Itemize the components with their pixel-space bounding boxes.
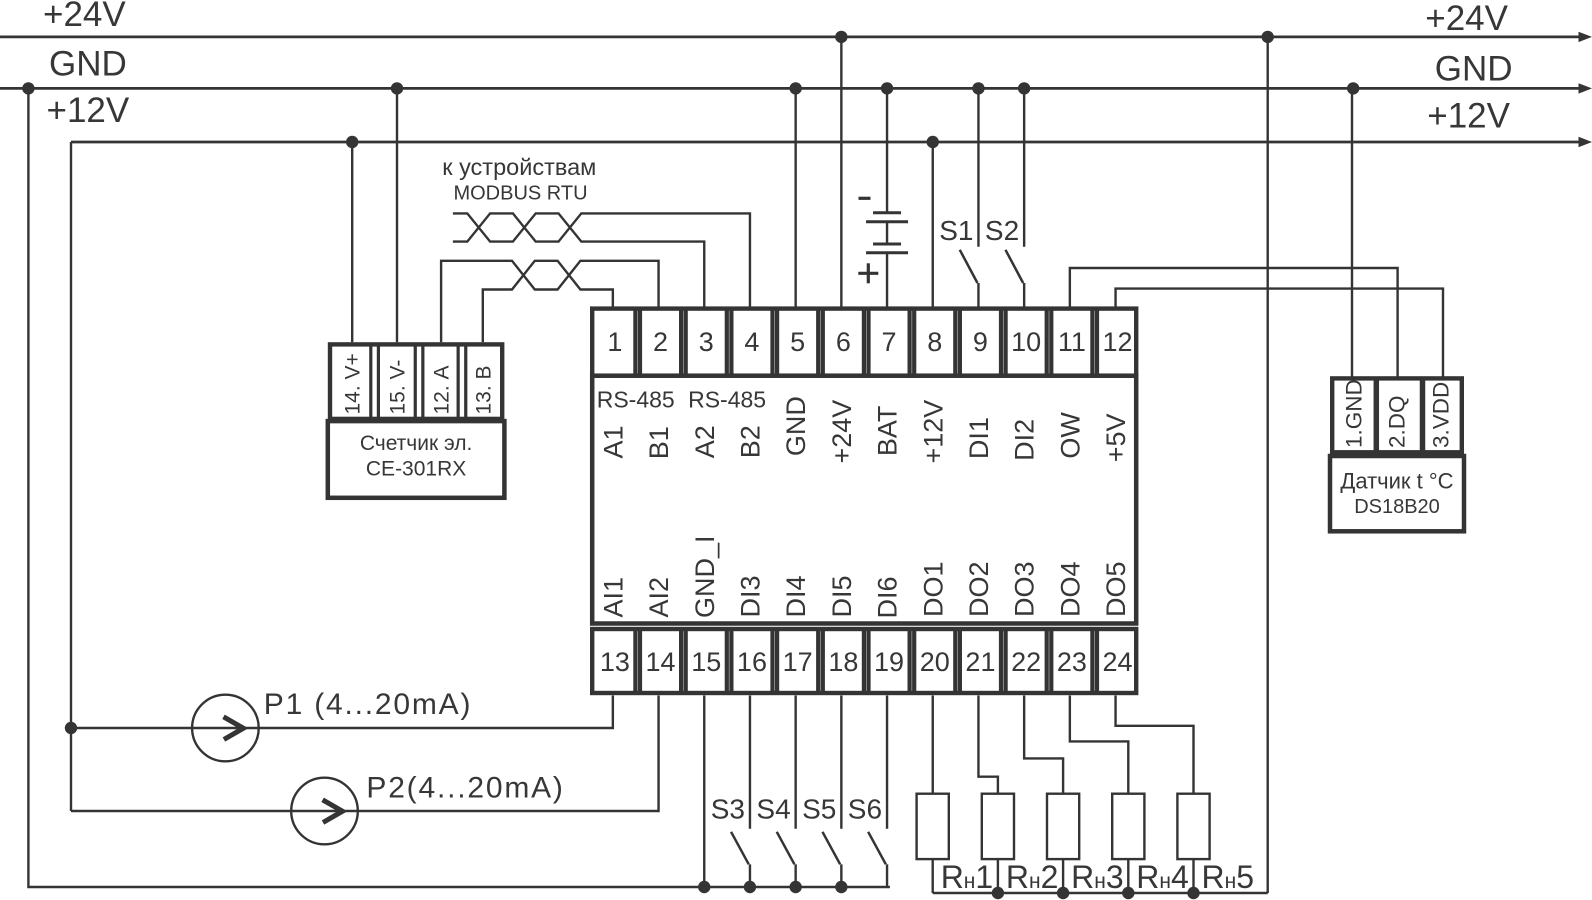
svg-text:B1: B1 [644,426,674,459]
svg-text:13. В: 13. В [472,365,495,414]
svg-text:12: 12 [1103,327,1133,357]
svg-text:RS-485: RS-485 [688,387,766,413]
svg-text:S5: S5 [802,793,836,824]
svg-text:GND: GND [49,45,127,84]
svg-text:3: 3 [699,327,714,357]
svg-text:OW: OW [1055,412,1085,459]
svg-text:RS-485: RS-485 [597,387,675,413]
svg-text:20: 20 [920,647,950,677]
svg-text:+12V: +12V [1427,97,1510,136]
svg-text:12. А: 12. А [431,365,454,414]
svg-text:S2: S2 [985,215,1019,246]
svg-text:+5V: +5V [1101,414,1131,463]
svg-text:5: 5 [790,327,805,357]
svg-text:15. V-: 15. V- [387,360,410,415]
svg-text:A2: A2 [690,425,720,458]
svg-text:21: 21 [965,647,995,677]
svg-text:16: 16 [737,647,767,677]
svg-text:СЕ-301RX: СЕ-301RX [366,458,466,481]
svg-text:DI2: DI2 [1010,419,1040,461]
svg-text:A1: A1 [598,425,628,458]
svg-text:DO2: DO2 [964,561,994,617]
svg-text:BAT: BAT [873,406,903,457]
svg-text:1: 1 [607,327,622,357]
svg-text:Счетчик эл.: Счетчик эл. [360,432,473,455]
svg-text:P1 (4...20mA): P1 (4...20mA) [264,688,472,721]
svg-text:P2(4...20mA): P2(4...20mA) [366,772,564,805]
svg-text:2: 2 [653,327,668,357]
svg-text:14: 14 [646,647,676,677]
svg-text:DI5: DI5 [827,575,857,617]
svg-text:15: 15 [691,647,721,677]
svg-text:DS18B20: DS18B20 [1354,496,1440,518]
svg-text:GND: GND [781,396,811,456]
svg-text:DO5: DO5 [1101,561,1131,617]
svg-text:1.GND: 1.GND [1341,379,1366,448]
svg-text:+12V: +12V [918,400,948,464]
svg-text:GND_I: GND_I [690,535,720,618]
svg-text:10: 10 [1011,327,1041,357]
svg-text:S4: S4 [756,793,790,824]
svg-text:AI1: AI1 [598,577,628,618]
svg-text:DO4: DO4 [1055,561,1085,617]
svg-text:11: 11 [1058,327,1086,357]
svg-text:DI6: DI6 [873,576,903,618]
svg-text:+12V: +12V [47,91,130,130]
svg-text:24: 24 [1103,647,1133,677]
svg-text:17: 17 [783,647,813,677]
svg-text:22: 22 [1011,647,1041,677]
svg-text:3.VDD: 3.VDD [1429,382,1454,448]
svg-text:9: 9 [973,327,988,357]
svg-text:23: 23 [1057,647,1087,677]
svg-text:8: 8 [927,327,942,357]
svg-text:2.DQ: 2.DQ [1385,395,1410,448]
svg-text:6: 6 [836,327,851,357]
svg-text:+24V: +24V [1425,0,1508,38]
svg-text:+24V: +24V [827,400,857,464]
svg-text:19: 19 [874,647,904,677]
svg-text:18: 18 [828,647,858,677]
svg-text:13: 13 [600,647,630,677]
svg-text:S6: S6 [848,793,882,824]
svg-text:к устройствам: к устройствам [442,154,596,180]
svg-text:DI3: DI3 [735,575,765,617]
svg-text:4: 4 [744,327,759,357]
svg-text:Датчик t °C: Датчик t °C [1340,469,1453,494]
svg-text:DO3: DO3 [1010,561,1040,617]
svg-text:DI4: DI4 [781,575,811,617]
svg-text:S1: S1 [939,215,973,246]
svg-text:+24V: +24V [43,0,126,34]
svg-text:7: 7 [882,327,897,357]
svg-text:AI2: AI2 [644,577,674,618]
svg-text:MODBUS RTU: MODBUS RTU [453,183,587,205]
svg-text:14. V+: 14. V+ [342,353,365,414]
svg-text:DO1: DO1 [918,561,948,617]
svg-text:DI1: DI1 [964,417,994,459]
svg-text:B2: B2 [735,425,765,458]
svg-text:GND: GND [1435,49,1513,88]
svg-text:S3: S3 [711,793,745,824]
